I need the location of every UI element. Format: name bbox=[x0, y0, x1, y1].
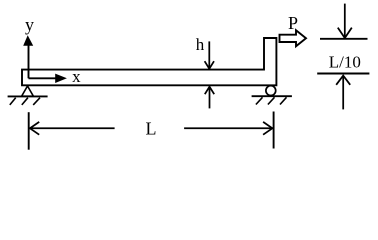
svg-text:y: y bbox=[25, 15, 34, 35]
svg-text:L/10: L/10 bbox=[329, 52, 361, 71]
svg-text:x: x bbox=[72, 67, 81, 86]
svg-text:h: h bbox=[196, 35, 205, 54]
svg-text:L: L bbox=[146, 119, 157, 139]
